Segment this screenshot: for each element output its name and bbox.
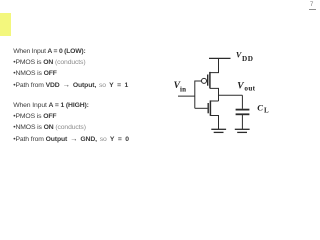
- line under page number: [309, 9, 317, 10]
- wire gate bus to NMOS gate: [195, 107, 208, 109]
- ground (NMOS source): [211, 128, 226, 130]
- wire NMOS drain: [210, 100, 218, 102]
- CMOS inverter schematic: [0, 0, 320, 180]
- capacitor CL top plate: [236, 109, 250, 111]
- transistor Q1 PMOS channel bar: [209, 72, 211, 89]
- wire Vin input: [178, 95, 195, 97]
- svg-text:out: out: [244, 85, 255, 93]
- text block 2: [13, 101, 130, 146]
- wire gate bus vertical: [194, 81, 196, 109]
- transistor Q2 NMOS channel bar: [209, 100, 211, 115]
- transistor Q1 PMOS gate bar: [207, 75, 209, 86]
- yellow accent bar: [0, 13, 11, 36]
- page number 7: [310, 1, 314, 8]
- wire PMOS drain: [210, 88, 219, 101]
- svg-text:in: in: [180, 86, 186, 94]
- wire output node: [219, 94, 243, 96]
- wire output to capacitor: [241, 95, 243, 109]
- svg-text:L: L: [264, 107, 269, 115]
- wire NMOS source to ground: [210, 116, 218, 130]
- text block 1: [13, 47, 129, 92]
- capacitor CL bottom plate: [236, 113, 250, 115]
- wire bubble to gate bus: [195, 80, 202, 82]
- ground (capacitor): [235, 128, 250, 130]
- svg-text:V: V: [237, 82, 244, 92]
- wire VDD rail to PMOS source: [210, 58, 219, 72]
- svg-text:C: C: [257, 103, 263, 113]
- transistor Q2 NMOS gate bar: [207, 103, 209, 113]
- transistor Q1 PMOS gate bubble: [202, 78, 207, 83]
- VDD rail: [209, 57, 231, 59]
- wire capacitor to ground: [241, 115, 243, 129]
- svg-text:DD: DD: [242, 55, 253, 63]
